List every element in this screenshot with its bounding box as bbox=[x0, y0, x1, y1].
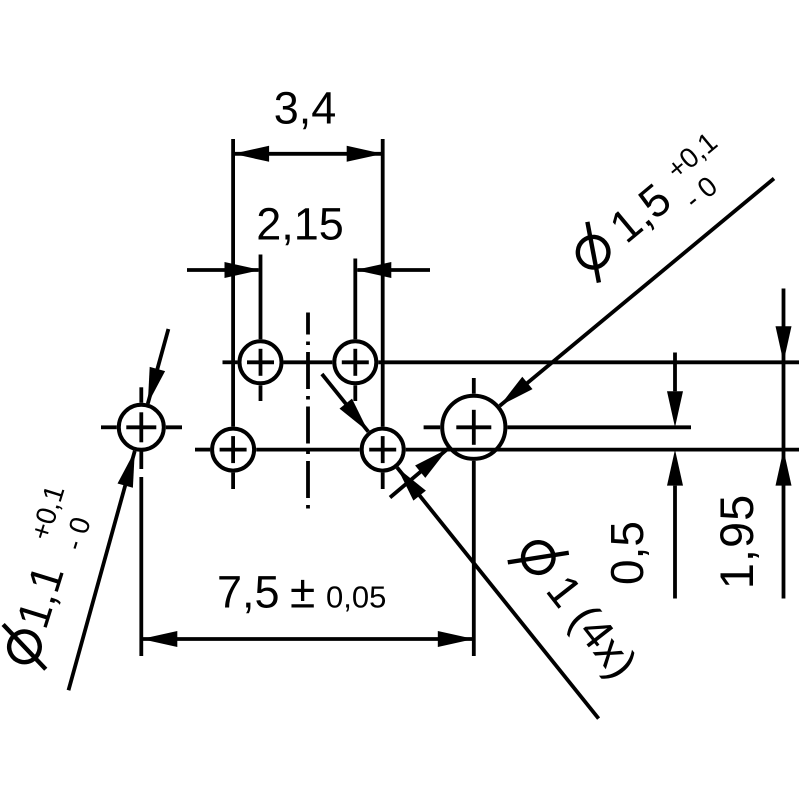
dim 3,4 line bbox=[233, 152, 383, 156]
label O1 (4x) bbox=[508, 529, 649, 689]
svg-text:7,5: 7,5 bbox=[217, 567, 280, 618]
dim 7,5 line bbox=[141, 637, 474, 641]
dim 2,15 extension right bbox=[353, 259, 357, 340]
dim 2,15 line left bbox=[187, 268, 259, 272]
hole bottom-left (O1) bbox=[212, 429, 254, 471]
vertical dash-dot centreline bbox=[306, 313, 310, 513]
dim 7,5 extension right bbox=[472, 461, 476, 656]
dim 3,4 extension right bbox=[381, 139, 385, 427]
svg-text:- 0: - 0 bbox=[57, 513, 96, 553]
svg-text:0,5: 0,5 bbox=[601, 521, 653, 585]
svg-text:1,5: 1,5 bbox=[600, 173, 681, 252]
big-hole horizontal centreline bbox=[424, 425, 441, 429]
top row centreline bbox=[223, 360, 238, 364]
svg-text:±: ± bbox=[290, 566, 315, 618]
label O1,5 +0,1/-0 bbox=[564, 126, 745, 292]
dim 2,15 line right bbox=[357, 268, 430, 272]
left-hole vertical centreline stub bbox=[139, 387, 143, 403]
hole top-right (O1) bbox=[334, 341, 376, 383]
leader O1(4x) upper segment bbox=[322, 374, 368, 432]
svg-text:+0,1: +0,1 bbox=[661, 126, 723, 185]
svg-text:3,4: 3,4 bbox=[274, 82, 337, 133]
label O1,1 +0,1/-0 bbox=[0, 481, 103, 671]
svg-text:2,15: 2,15 bbox=[256, 198, 344, 249]
svg-text:1,95: 1,95 bbox=[710, 494, 763, 589]
dim 0,5 line lower bbox=[673, 486, 677, 599]
leader O1(4x) lower segment bbox=[397, 468, 598, 719]
big-hole vertical centreline stub bbox=[472, 378, 476, 394]
left-hole horizontal centreline bbox=[101, 425, 117, 429]
hole left (O1,1) bbox=[119, 405, 164, 450]
dim 3,4 extension left bbox=[231, 139, 235, 427]
leader O1,5 lower segment bbox=[390, 449, 448, 498]
dim 2,15 extension left bbox=[259, 255, 263, 340]
leader O1,1 upper segment bbox=[148, 329, 169, 404]
dim 1,95 line bbox=[782, 289, 786, 599]
svg-text:1,1: 1,1 bbox=[7, 559, 74, 634]
bottom row centreline bbox=[195, 448, 210, 452]
svg-text:0,05: 0,05 bbox=[326, 580, 386, 615]
leader O1,1 lower segment bbox=[69, 451, 135, 690]
dim 0,5 line upper bbox=[673, 353, 677, 392]
hole top-left (O1) bbox=[240, 341, 282, 383]
dim 7,5 extension left bbox=[139, 452, 143, 470]
hole big (O1,5) bbox=[442, 396, 505, 459]
hole bottom-right (O1) bbox=[362, 429, 404, 471]
leader O1,5 upper segment bbox=[500, 179, 774, 406]
